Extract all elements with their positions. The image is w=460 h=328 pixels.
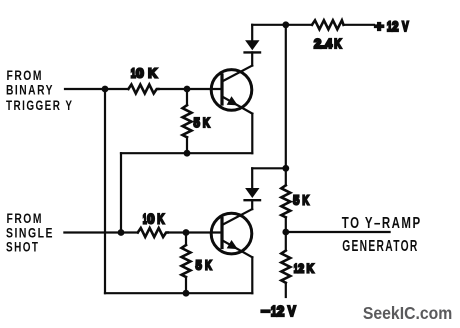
wire: Q1 emitter vertical — [251, 114, 253, 154]
node: junction binary line / cross-coupling vertical — [102, 86, 109, 93]
node: junction of top rail and right rail — [282, 21, 289, 28]
resistor 2.4K on top rail — [312, 20, 344, 29]
svg-text:K: K — [205, 259, 212, 273]
node: junction binary line / 5K upper — [184, 86, 191, 93]
svg-text:GENERATOR: GENERATOR — [342, 237, 418, 255]
wire: Q1 emitter node horizontal line — [121, 152, 252, 154]
svg-text:TRIGGER Y: TRIGGER Y — [6, 97, 73, 113]
svg-text:1: 1 — [143, 212, 147, 227]
svg-text:−: − — [261, 304, 270, 320]
svg-text:SHOT: SHOT — [6, 239, 39, 255]
label FROM BINARY TRIGGER Y — [6, 67, 73, 113]
wire: cross-coupling vertical from Q1 base node down to bottom rail — [104, 89, 106, 293]
resistor 5K (right rail upper) — [281, 185, 290, 250]
svg-text:K: K — [302, 194, 309, 208]
svg-text:5: 5 — [293, 193, 299, 208]
svg-text:4: 4 — [325, 37, 332, 51]
wire: FROM BINARY TRIGGER input line to Q1 base — [65, 88, 222, 90]
svg-text:K: K — [148, 65, 158, 80]
svg-text:K: K — [157, 211, 164, 227]
svg-text:FROM: FROM — [7, 67, 43, 83]
label TO Y-RAMP GENERATOR — [342, 214, 422, 254]
svg-text:BINARY: BINARY — [6, 82, 54, 98]
svg-text:0: 0 — [147, 211, 154, 226]
node: junction 5K bottom / bottom rail — [183, 290, 190, 297]
wire: Q2 emitter vertical to bottom rail — [251, 257, 253, 293]
svg-text:2: 2 — [277, 303, 285, 319]
svg-text:2: 2 — [298, 263, 304, 276]
wire: output line TO Y-RAMP GENERATOR — [286, 231, 390, 233]
node: junction single shot line / 5K lower — [183, 229, 190, 236]
svg-text:2: 2 — [392, 19, 398, 34]
transistor Q2 (NPN) — [211, 209, 252, 257]
wire: +12V top rail — [252, 24, 374, 26]
resistor 5K (Q2 base to emitter/bottom rail) — [182, 233, 191, 294]
svg-text:0: 0 — [136, 66, 144, 80]
node: junction right rail / TO Y-RAMP output — [282, 229, 289, 236]
wire: right rail to diode 2 — [252, 168, 286, 188]
resistor 5K (Q1 base to emitter node) — [183, 89, 192, 153]
svg-text:+: + — [374, 20, 383, 35]
resistor 10K (single shot input) — [138, 228, 168, 237]
wire: right rail from top to 5K — [285, 25, 287, 186]
node: junction right rail / diode 2 feed — [282, 165, 289, 172]
resistor 10K (binary trigger input) — [128, 85, 158, 94]
wire: cross-coupling vertical from Q1 emitter line to Q2 base — [120, 153, 122, 232]
node: junction on single shot line at cross-coupling — [118, 229, 125, 236]
transistor Q1 (NPN) — [211, 66, 252, 114]
svg-text:K: K — [334, 38, 342, 51]
svg-text:V: V — [402, 19, 409, 35]
svg-text:K: K — [203, 117, 211, 131]
svg-text:TO Y–RAMP: TO Y–RAMP — [342, 214, 422, 231]
wire: bottom rail (Q2 emitter node) — [105, 292, 252, 294]
svg-text:K: K — [307, 262, 314, 275]
diode CR1 (anode at +12V rail, cathode to Q1 collector) — [245, 25, 260, 66]
svg-text:SeekIC.com: SeekIC.com — [363, 303, 452, 323]
svg-text:5: 5 — [196, 258, 202, 273]
wire: FROM SINGLE SHOT input line to Q2 base — [64, 231, 222, 233]
diode CR2 (anode at rail, cathode to Q2 collector) — [245, 188, 260, 209]
node: junction 5K bottom / emitter line — [184, 150, 191, 157]
svg-text:V: V — [288, 303, 296, 319]
resistor 12K (right rail lower) — [281, 251, 290, 298]
label FROM SINGLE SHOT — [6, 211, 54, 255]
svg-text:5: 5 — [194, 115, 200, 130]
